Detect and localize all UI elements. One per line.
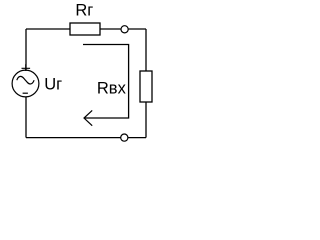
resistor R1 (Rг) [70, 23, 100, 35]
arrow Rвх (input-resistance pointer) [83, 45, 129, 119]
wire right lower: R2 to bottom wire [145, 102, 147, 138]
terminal top (input node) [121, 26, 128, 33]
source U1 (Uг) circle [12, 70, 39, 97]
wire: top terminal to top-right corner [128, 28, 146, 30]
resistor R2 (load) [140, 71, 152, 102]
wire right upper: corner down to resistor R2 [145, 29, 147, 71]
polarity minus [23, 92, 28, 94]
arrowhead [84, 110, 92, 125]
terminal bottom (input node) [121, 134, 128, 141]
polarity plus [22, 64, 31, 71]
svg-text:Uг: Uг [44, 76, 62, 94]
wire bottom: bottom terminal to bottom-left corner [26, 137, 121, 139]
wire left upper: source up to top-left corner [25, 29, 27, 70]
svg-text:Rвх: Rвх [97, 79, 127, 97]
wire: R1 to top terminal [100, 28, 121, 30]
wire left lower: bottom corner up to source [25, 97, 27, 138]
svg-text:Rг: Rг [75, 2, 93, 20]
wire top-left: left corner to resistor R1 [26, 28, 70, 30]
wire bottom-right: corner to bottom terminal [128, 137, 146, 139]
source U1 sine wave [17, 76, 34, 84]
